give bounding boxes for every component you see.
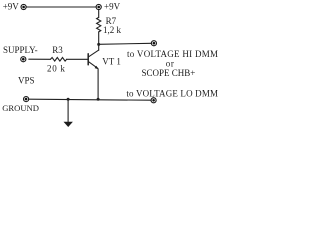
node collector junction	[97, 43, 100, 46]
resistor R7	[97, 17, 101, 32]
wire collector branch to terminal	[99, 43, 152, 44]
svg-text:to VOLTAGE HI DMM: to VOLTAGE HI DMM	[127, 49, 218, 59]
terminal SUPPLY-	[21, 57, 26, 62]
terminal +9V left	[21, 4, 26, 9]
svg-text:SCOPE CHB+: SCOPE CHB+	[142, 68, 196, 78]
svg-text:20 k: 20 k	[47, 64, 66, 74]
ground	[64, 122, 73, 127]
svg-text:VPS: VPS	[18, 76, 35, 86]
terminal +9V node	[96, 4, 101, 9]
svg-text:1,2 k: 1,2 k	[103, 25, 122, 35]
wire emitter lead down	[97, 69, 99, 99]
svg-text:GROUND: GROUND	[2, 103, 39, 113]
resistor R3	[51, 58, 67, 62]
terminal VOLTAGE LO	[151, 98, 156, 103]
wire ground stub	[67, 99, 69, 122]
wire ground rail	[29, 99, 151, 100]
terminal GROUND	[24, 97, 29, 102]
node emitter-ground junction	[97, 98, 100, 101]
svg-text:+9V: +9V	[104, 2, 121, 12]
wire base lead from SUPPLY terminal	[29, 58, 51, 60]
svg-text:SUPPLY-: SUPPLY-	[3, 45, 38, 55]
svg-text:R3: R3	[52, 45, 63, 55]
wire top rail	[26, 6, 99, 8]
terminal VOLTAGE HI	[151, 41, 156, 46]
node ground stub junction	[67, 98, 70, 101]
svg-text:VT 1: VT 1	[102, 56, 121, 66]
wire R7 top lead	[98, 10, 100, 18]
wire R3 to base	[67, 58, 88, 60]
svg-text:+9V: +9V	[3, 2, 20, 12]
transistor VT1	[88, 50, 99, 69]
svg-text:to VOLTAGE LO DMM: to VOLTAGE LO DMM	[126, 88, 218, 98]
wire R7 bottom lead	[98, 32, 100, 50]
svg-text:or: or	[166, 58, 175, 68]
